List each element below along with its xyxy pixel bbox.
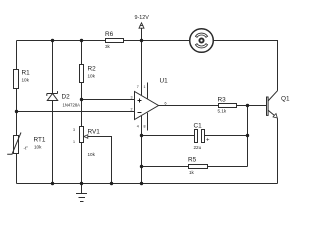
svg-text:10k: 10k [34, 144, 42, 149]
junction wiper ground [110, 182, 113, 185]
svg-text:1: 1 [144, 85, 146, 89]
junction RV1 ground [80, 182, 83, 185]
svg-text:10k: 10k [22, 78, 30, 83]
wire C1 left [142, 135, 195, 137]
svg-text:R2: R2 [88, 66, 97, 73]
svg-text:1N4728A: 1N4728A [63, 102, 81, 107]
junction C1 left [140, 134, 143, 137]
wire RV1 wiper to ground [88, 137, 112, 184]
svg-text:22u: 22u [194, 145, 202, 150]
junction C1 right [246, 134, 249, 137]
svg-text:5.1k: 5.1k [218, 109, 227, 114]
svg-text:6: 6 [165, 101, 167, 105]
op-amp U1 [131, 78, 169, 129]
wire D2 column bottom [52, 101, 54, 184]
wire output to R3 [159, 105, 219, 107]
wire left column mid [16, 89, 18, 136]
transistor Q1 [267, 91, 290, 118]
potentiometer RV1 [73, 127, 100, 158]
svg-text:1: 1 [73, 140, 75, 144]
wire left column [16, 41, 18, 70]
wire pin2 net [17, 111, 135, 113]
svg-text:1k: 1k [189, 170, 195, 175]
junction supply rail [140, 39, 143, 42]
svg-text:R1: R1 [22, 70, 31, 77]
wire top rail mid [124, 40, 190, 42]
wire pin8 stub [147, 113, 149, 131]
svg-text:10k: 10k [88, 152, 96, 157]
resistor R1 [14, 70, 31, 89]
wire pin1 stub [147, 83, 149, 99]
svg-text:D2: D2 [62, 93, 71, 100]
wire pin7 supply column [141, 41, 143, 96]
svg-text:R3: R3 [218, 97, 227, 104]
wire R5 right [208, 166, 248, 168]
wire D2 column top [52, 41, 54, 94]
junction R2 top rail [80, 39, 83, 42]
wire top rail left [17, 40, 106, 42]
junction R5 left [140, 165, 143, 168]
svg-text:-t°: -t° [24, 146, 29, 151]
resistor R2 [80, 65, 97, 83]
svg-text:9-12V: 9-12V [135, 15, 150, 21]
svg-text:4: 4 [137, 124, 139, 128]
wire bottom rail [17, 183, 278, 185]
wire C1 right [205, 135, 248, 137]
svg-text:Q1: Q1 [281, 95, 290, 102]
svg-text:C1: C1 [194, 122, 203, 129]
svg-text:+: + [206, 137, 210, 143]
wire left column low [16, 154, 18, 184]
svg-text:3: 3 [131, 96, 133, 100]
zener diode D2 [47, 91, 80, 107]
ground [76, 184, 87, 202]
svg-text:R6: R6 [105, 31, 114, 38]
wire pin4 ground column [141, 116, 143, 184]
svg-text:RT1: RT1 [34, 137, 46, 144]
svg-text:3: 3 [73, 128, 75, 132]
capacitor C1 [194, 122, 211, 150]
svg-text:7: 7 [137, 85, 139, 89]
wire pin3 net [82, 99, 135, 101]
power arrow 9-12V [139, 23, 144, 28]
svg-text:R5: R5 [188, 157, 197, 164]
wire R2 to RV1 [81, 83, 83, 127]
svg-text:U1: U1 [160, 78, 169, 85]
wire emitter down [277, 118, 279, 183]
motor M [190, 29, 214, 53]
svg-text:3k: 3k [105, 44, 111, 49]
svg-text:RV1: RV1 [88, 128, 101, 135]
junction R1 RT1 node [15, 110, 18, 113]
junction base node [246, 104, 249, 107]
svg-text:10k: 10k [88, 74, 96, 79]
junction pin4 ground [140, 182, 143, 185]
thermistor RT1 [7, 133, 46, 155]
junction R2 RV1 node [80, 98, 83, 101]
junction D2 top rail [51, 39, 54, 42]
wire RV1 bottom [81, 143, 83, 184]
resistor R5 [188, 157, 208, 175]
wire R5 left [142, 166, 189, 168]
svg-text:2: 2 [131, 108, 133, 112]
resistor R6 [105, 31, 124, 49]
wire top rail right [213, 41, 277, 91]
wire R2 column top [81, 41, 83, 65]
wire R3 to base [237, 105, 267, 107]
svg-text:8: 8 [144, 124, 146, 128]
wire feedback vertical [247, 106, 249, 167]
junction D2 ground [51, 182, 54, 185]
wire supply stem [141, 28, 143, 41]
resistor R3 [218, 97, 237, 114]
